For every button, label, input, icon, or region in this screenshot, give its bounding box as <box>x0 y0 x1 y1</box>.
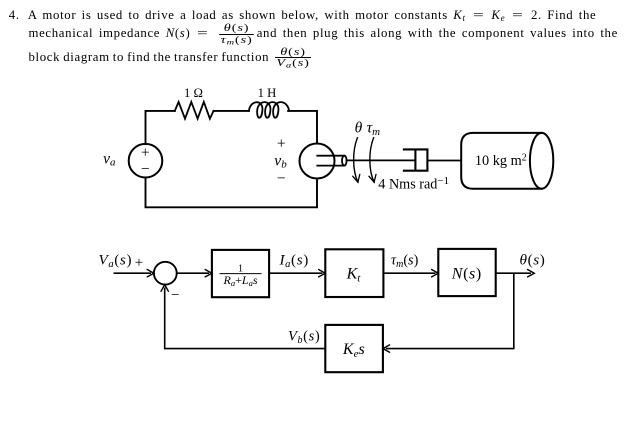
theta arc arrowhead <box>353 174 360 182</box>
arrow block1 to Kt <box>269 272 322 274</box>
block Kt <box>325 249 383 297</box>
problem number 4. <box>9 9 20 22</box>
svg-text:N(s): N(s) <box>451 266 482 283</box>
wire motor to bottom and bottom wire <box>146 178 318 208</box>
problem text line 3 <box>29 48 309 68</box>
svg-text:−: − <box>141 161 150 178</box>
svg-text:θ: θ <box>355 120 363 137</box>
svg-text:+: + <box>141 145 150 162</box>
block diagram <box>114 249 532 372</box>
inertia cylinder body <box>461 133 541 189</box>
arrowhead into summing junction <box>147 270 154 277</box>
motor shaft cylinder <box>317 156 346 166</box>
shaft line damper to inertia <box>427 160 461 162</box>
svg-text:Ra+Las: Ra+Las <box>223 273 258 288</box>
svg-text:Va(s): Va(s) <box>99 252 133 271</box>
svg-text:τm(s): τm(s) <box>391 253 419 271</box>
svg-text:−: − <box>171 288 179 304</box>
svg-text:+: + <box>135 255 143 271</box>
svg-text:1 Ω: 1 Ω <box>184 86 203 100</box>
resistor R 1ohm <box>175 102 214 119</box>
output line theta <box>496 272 531 274</box>
svg-text:10 kg m2: 10 kg m2 <box>475 152 527 169</box>
motor body circle <box>300 144 335 179</box>
block 1/(Ra+Las) <box>212 250 269 297</box>
problem text line 2 <box>29 24 618 44</box>
svg-text:−: − <box>277 170 286 187</box>
arrowhead into Kt <box>319 270 326 277</box>
tau_m arc arrowhead <box>369 174 376 182</box>
inductor L 1H <box>249 102 289 118</box>
theta rotation arc arrow <box>354 138 358 182</box>
svg-text:+: + <box>277 135 286 152</box>
problem text line 1 <box>28 9 597 22</box>
wire circuit top-left segment <box>146 111 175 144</box>
svg-text:va: va <box>103 150 116 168</box>
arrow summing to block1 <box>177 272 209 274</box>
svg-text:τm: τm <box>367 120 381 138</box>
shaft line motor to damper piston <box>347 159 415 161</box>
damper piston plate <box>414 150 416 170</box>
feedback line Kes to summing <box>165 288 326 349</box>
svg-text:1 H: 1 H <box>258 86 277 100</box>
svg-text:θ(s): θ(s) <box>520 252 546 269</box>
voltage source va circle <box>129 144 163 178</box>
svg-text:Kt: Kt <box>346 266 362 285</box>
arrowhead into block1 <box>205 270 212 277</box>
wire inductor to top-right corner <box>288 111 317 144</box>
damper housing <box>404 149 428 170</box>
arrowhead output theta <box>528 270 535 277</box>
summing junction circle <box>154 262 177 285</box>
arrowhead into summing from below <box>161 285 168 292</box>
block Kes <box>325 325 383 372</box>
svg-text:Kes: Kes <box>342 341 365 360</box>
block1 fraction bar <box>220 273 262 275</box>
arrow Kt to Ns <box>383 272 435 274</box>
arrowhead into Kes <box>383 345 390 352</box>
input arrow line Va <box>114 272 152 274</box>
arrowhead into Ns <box>432 270 439 277</box>
svg-text:Ia(s): Ia(s) <box>279 252 309 271</box>
wire resistor to inductor <box>214 110 249 112</box>
tau_m rotation arc arrow <box>370 138 374 182</box>
svg-text:vb: vb <box>274 152 287 170</box>
feedback branch vertical <box>386 273 514 348</box>
inertia cylinder end cap ellipse <box>530 133 553 189</box>
svg-text:Vb(s): Vb(s) <box>288 328 320 346</box>
svg-text:4 Nms rad−1: 4 Nms rad−1 <box>378 175 449 193</box>
block Ns <box>438 249 495 296</box>
